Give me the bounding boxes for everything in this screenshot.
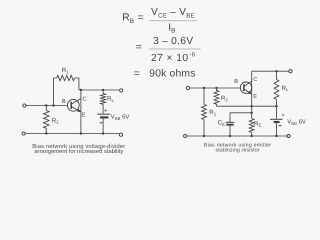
svg-text:VBB 6V: VBB 6V: [111, 114, 130, 121]
wire RL to emitter rail: [276, 100, 278, 107]
svg-text:90k ohms: 90k ohms: [149, 69, 195, 80]
fraction bar 1: [149, 20, 197, 21]
wire R2 branch: [45, 106, 47, 111]
node R1 bottom junction right: [203, 135, 205, 137]
svg-text:VCE – VBE: VCE – VBE: [151, 7, 195, 19]
node collector junction: [80, 89, 82, 91]
svg-text:3 – 0.6V: 3 – 0.6V: [153, 36, 193, 47]
transistor Q1 body: [67, 99, 81, 112]
transistor Q2 body: [240, 81, 251, 94]
right bottom-right terminal: [287, 135, 290, 138]
node battery bottom junction right: [275, 135, 277, 137]
node R2 bottom junction: [45, 132, 47, 134]
node R2 junction: [45, 104, 47, 106]
wire emitter rail: [217, 105, 277, 107]
svg-text:RB: RB: [122, 13, 134, 25]
svg-text:B: B: [234, 79, 238, 85]
wire R1 branch up and over: [54, 78, 57, 106]
fraction bar 2: [149, 48, 200, 49]
wire base rail left: [26, 105, 67, 107]
wire base rail right: [190, 87, 241, 89]
left output terminal: [120, 89, 123, 92]
resistor R2 left: [44, 111, 50, 129]
resistor R1 right: [202, 105, 207, 120]
svg-text:=: =: [138, 12, 144, 23]
transistor Q1 collector-emitter line: [80, 90, 82, 134]
wire RL to battery left: [102, 104, 104, 113]
resistor RL right: [274, 80, 279, 100]
left bottom-right terminal: [119, 133, 122, 136]
left ground terminal: [22, 132, 25, 135]
svg-text:R1: R1: [209, 109, 216, 116]
svg-text:=: =: [136, 42, 142, 53]
svg-text:IB: IB: [168, 22, 175, 34]
svg-text:RL: RL: [282, 85, 289, 92]
wire RL drop left: [102, 90, 104, 94]
node emitter bottom junction: [80, 132, 82, 134]
resistor RL left: [101, 94, 106, 105]
battery VBB right: [270, 119, 283, 136]
battery VBB left: [97, 114, 110, 133]
node RL junction left: [102, 89, 104, 91]
svg-text:E: E: [253, 94, 257, 100]
node RL junction right: [275, 70, 277, 72]
wire RL drop right: [276, 71, 278, 79]
svg-text:arrangement for increased stab: arrangement for increased stability: [34, 148, 123, 155]
wire R1 to collector rail: [75, 78, 79, 90]
svg-text:E: E: [82, 112, 86, 118]
svg-text:CE: CE: [218, 120, 225, 127]
svg-text:RE: RE: [254, 120, 261, 127]
node emitter junction 2: [251, 112, 253, 114]
right ground terminal: [184, 135, 187, 138]
node RE bottom junction: [251, 135, 253, 137]
resistor R2 right: [214, 88, 219, 106]
node battery bottom junction: [102, 132, 104, 134]
svg-text:C: C: [83, 96, 87, 102]
wire bottom rail right: [187, 135, 288, 137]
wire collector rail: [79, 89, 120, 91]
right output terminal: [289, 70, 292, 73]
svg-text:=: =: [134, 68, 140, 79]
capacitor CE: [226, 122, 235, 136]
svg-text:stabilizing resistor: stabilizing resistor: [216, 147, 260, 153]
wire RE to bottom rail: [251, 132, 253, 136]
battery minus sign right: [279, 125, 282, 127]
svg-text:B: B: [62, 99, 66, 105]
left input terminal: [23, 104, 26, 107]
svg-text:R2: R2: [221, 95, 228, 102]
resistor RE: [249, 119, 254, 133]
transistor Q2 collector-emitter line: [251, 71, 253, 118]
node R2 junction right: [215, 87, 217, 89]
svg-text:RL: RL: [107, 95, 114, 102]
wire CE rail: [230, 113, 252, 122]
node R1 junction: [52, 104, 54, 106]
node R1 junction right: [203, 87, 205, 89]
node emitter junction 1: [251, 105, 253, 107]
node battery top junction: [275, 105, 277, 107]
svg-text:C: C: [253, 77, 257, 83]
battery minus sign left: [100, 122, 103, 124]
right input terminal: [186, 86, 189, 89]
wire collector top rail: [252, 70, 289, 72]
wire R1 branch right: [203, 88, 205, 105]
svg-text:R1: R1: [62, 67, 69, 74]
node CE bottom junction: [229, 135, 231, 137]
svg-text:+: +: [104, 108, 108, 114]
svg-text:VBB 6V: VBB 6V: [287, 119, 306, 126]
svg-text:27 × 10-6: 27 × 10-6: [151, 52, 196, 64]
svg-text:+: +: [281, 113, 285, 119]
wire battery drop right: [276, 106, 278, 119]
wire R1 to bottom rail right: [203, 120, 205, 137]
svg-text:R2: R2: [52, 117, 59, 124]
wire R2 to bottom rail: [45, 128, 47, 133]
wire bottom rail left: [25, 133, 119, 135]
resistor R1 left: [57, 75, 75, 80]
